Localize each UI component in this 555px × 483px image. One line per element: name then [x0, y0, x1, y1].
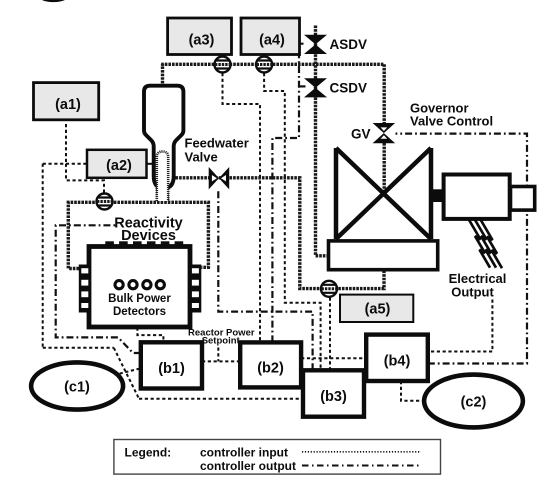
bulk power detector rings [115, 281, 164, 289]
box (b3) [303, 370, 364, 416]
svg-text:(a5): (a5) [365, 302, 391, 318]
box (b2) [240, 342, 301, 387]
box (a4) [241, 18, 300, 55]
svg-text:(b2): (b2) [257, 361, 284, 377]
svg-text:(b1): (b1) [158, 361, 185, 377]
svg-text:(b4): (b4) [384, 354, 411, 370]
svg-text:Feedwater: Feedwater [185, 136, 249, 151]
box (b1) [141, 342, 202, 388]
pipe: ASDV/CSDV riser down to condenser [316, 26, 329, 256]
box (a2) [87, 150, 147, 178]
legend dash-dot sample [302, 465, 422, 467]
svg-text:(a3): (a3) [189, 33, 215, 49]
svg-text:(c1): (c1) [64, 380, 90, 396]
svg-text:controller input: controller input [200, 446, 288, 460]
box (b4) [366, 335, 428, 381]
wire: stub (a2) to boiler [147, 163, 153, 165]
sensor circle on feedwater return near (a5) [321, 281, 337, 297]
valve feedwater (horizontal bowtie) [209, 167, 230, 189]
generator terminal box [511, 187, 535, 211]
wire: dotted from steam sensor circle under (a4) to (b3) [264, 73, 321, 370]
lightning bolts electrical output [469, 219, 503, 268]
svg-text:ASDV: ASDV [330, 37, 368, 52]
pipe: main steam line from boiler to ASDV/GV [161, 64, 384, 194]
valve CSDV [304, 78, 327, 97]
box (a5) [340, 295, 413, 322]
wire: dotted (b1) to (b2) reactor power setpoint [202, 360, 240, 362]
svg-text:Detectors: Detectors [113, 306, 166, 318]
wire: dotted (b2) to (b4) [301, 357, 366, 359]
svg-text:(b3): (b3) [320, 389, 347, 405]
boiler vessel [144, 86, 183, 189]
box (a3) [168, 18, 232, 55]
wire: dotted (b4) to (c2) [401, 381, 422, 401]
boiler inner riser tube [157, 152, 168, 202]
pipe: heat transport loop around reactivity devices [68, 202, 208, 268]
sensor circle on steam line under (a3) [215, 57, 231, 73]
wire: dotted from reactor core bottom to (b1) [137, 328, 163, 343]
valve ASDV [304, 35, 327, 54]
svg-text:Legend:: Legend: [125, 446, 172, 460]
legend box [114, 440, 441, 475]
svg-text:CSDV: CSDV [330, 81, 368, 96]
ellipse (c2) [424, 375, 523, 428]
wire: dash-dot output (b4) governor valve control [396, 134, 528, 364]
ellipse (c1) [31, 362, 123, 409]
svg-text:controller output: controller output [200, 459, 296, 473]
legend dotted sample [302, 451, 421, 453]
svg-text:Setpoint: Setpoint [202, 336, 241, 347]
wire: dash-dot CSDV tap stub [299, 85, 306, 87]
pipe: boiler downcomer pipes to loop [157, 189, 168, 202]
condenser box [329, 241, 438, 270]
coupling block [431, 189, 443, 202]
turbine bowtie [336, 148, 431, 239]
core right comb [190, 265, 202, 313]
svg-text:Valve: Valve [185, 150, 218, 165]
wire: dash-dot output (b1) to reactivity devices [56, 225, 141, 353]
wire: dotted from feedwater sensor circle (a5) to (b3) [329, 298, 331, 371]
wire: dotted electrical output measurement to (b4) [428, 300, 493, 352]
core left comb [79, 265, 91, 313]
svg-text:(a1): (a1) [55, 97, 81, 113]
wire: dotted from steam sensor circle under (a3) to (b2) [223, 73, 261, 342]
svg-text:(a4): (a4) [259, 33, 285, 49]
wire: controller-input dotted network from (a1)/(a2)/loop sensor [43, 124, 303, 399]
svg-text:(a2): (a2) [106, 158, 132, 174]
sensor circle on loop line under (a2) [97, 194, 113, 210]
wire: dotted setpoint label tap [217, 348, 219, 362]
reactor core box [89, 247, 190, 328]
core top comb squares [105, 241, 183, 247]
svg-text:Bulk Power: Bulk Power [108, 293, 171, 305]
svg-text:Valve Control: Valve Control [410, 114, 493, 129]
sensor circle on steam line under (a4) [256, 57, 272, 73]
box (a1) [34, 83, 99, 120]
svg-text:GV: GV [351, 127, 371, 142]
generator box [444, 175, 510, 219]
wire: dash-dot output (b2) to CSDV and ASDV [272, 44, 303, 343]
wire: dotted from (c1) to (b1) [114, 368, 141, 375]
svg-text:Output: Output [451, 285, 494, 300]
svg-text:(c2): (c2) [461, 395, 487, 411]
wire: dash-dot output (b3) to feedwater valve [218, 190, 312, 370]
decorative top-left circle arc [36, 0, 71, 2]
pipe: feedwater line from boiler through valve to condenser [176, 178, 385, 289]
valve GV (governor valve) [373, 123, 396, 143]
